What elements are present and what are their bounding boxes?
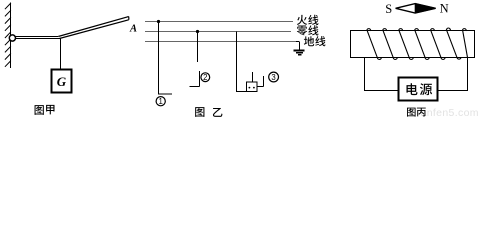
svg-text:anfen5.com: anfen5.com <box>421 107 479 119</box>
svg-text:2: 2 <box>203 73 207 82</box>
svg-text:1: 1 <box>159 97 163 106</box>
svg-text:A: A <box>129 24 137 35</box>
svg-text:N: N <box>440 2 449 16</box>
svg-text:G: G <box>57 74 67 89</box>
svg-text:3: 3 <box>271 73 275 82</box>
svg-text:S: S <box>385 2 392 16</box>
